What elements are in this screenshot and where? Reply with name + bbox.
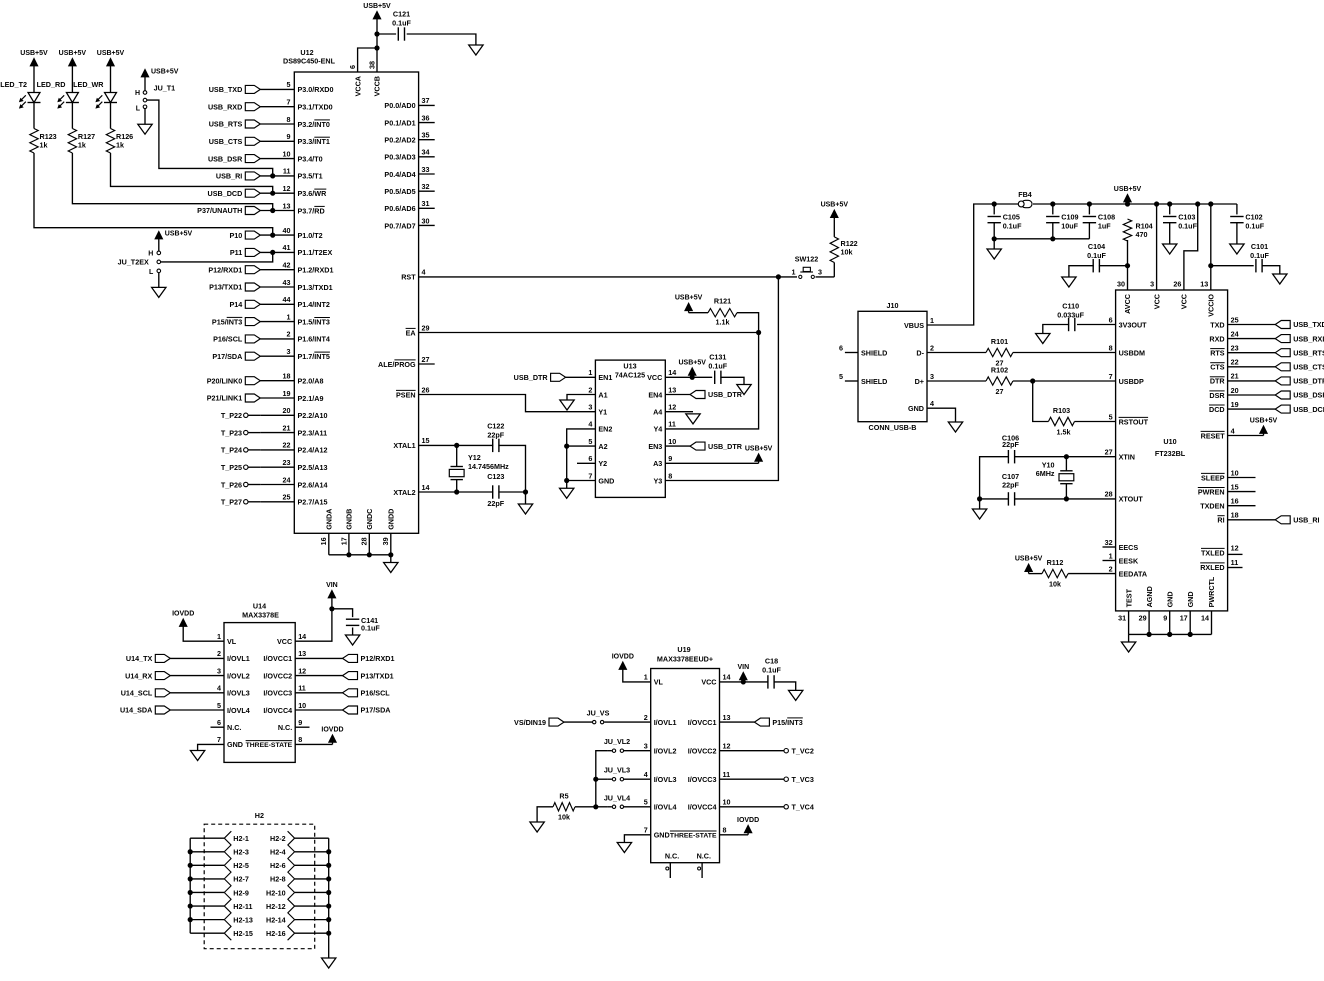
svg-text:1: 1 <box>287 312 291 321</box>
svg-text:USB_RTS: USB_RTS <box>209 120 243 129</box>
svg-text:RTS: RTS <box>1210 349 1225 358</box>
svg-text:AVCC: AVCC <box>1123 294 1132 314</box>
svg-text:USBDM: USBDM <box>1119 348 1145 357</box>
svg-text:22pF: 22pF <box>487 431 504 440</box>
svg-text:USB_RXD: USB_RXD <box>208 102 242 111</box>
svg-text:LED_WR: LED_WR <box>73 80 104 89</box>
svg-text:TXDEN: TXDEN <box>1200 502 1224 511</box>
svg-text:H2-9: H2-9 <box>233 888 249 897</box>
svg-text:P3.0/RXD0: P3.0/RXD0 <box>298 85 334 94</box>
svg-text:470: 470 <box>1136 230 1148 239</box>
svg-text:T_VC2: T_VC2 <box>792 747 814 756</box>
svg-text:VCC: VCC <box>647 373 662 382</box>
svg-text:XTAL1: XTAL1 <box>393 441 415 450</box>
svg-text:14: 14 <box>668 368 676 377</box>
svg-text:16: 16 <box>1231 497 1239 506</box>
svg-text:7: 7 <box>287 98 291 107</box>
svg-text:RXD: RXD <box>1209 334 1224 343</box>
svg-text:P21/LINK1: P21/LINK1 <box>207 394 243 403</box>
svg-text:H: H <box>148 251 153 258</box>
svg-text:P0.4/AD4: P0.4/AD4 <box>384 170 415 179</box>
svg-text:VL: VL <box>654 678 664 687</box>
svg-text:2: 2 <box>287 330 291 339</box>
svg-text:19: 19 <box>1231 400 1239 409</box>
svg-text:6: 6 <box>348 65 357 69</box>
svg-text:P2.2/A10: P2.2/A10 <box>298 411 328 420</box>
svg-text:VCC: VCC <box>277 637 292 646</box>
svg-text:P2.4/A12: P2.4/A12 <box>298 446 328 455</box>
svg-text:2: 2 <box>217 649 221 658</box>
svg-text:EESK: EESK <box>1119 556 1139 565</box>
svg-text:22pF: 22pF <box>1002 440 1019 449</box>
svg-text:Y4: Y4 <box>654 425 663 434</box>
svg-text:I/OVCC3: I/OVCC3 <box>263 689 292 698</box>
svg-text:16: 16 <box>319 537 328 545</box>
svg-text:3: 3 <box>287 347 291 356</box>
svg-text:9: 9 <box>287 132 291 141</box>
svg-text:P17/SDA: P17/SDA <box>361 706 391 715</box>
svg-text:22pF: 22pF <box>487 499 504 508</box>
svg-text:0.1uF: 0.1uF <box>1178 222 1197 231</box>
svg-text:USB_RI: USB_RI <box>216 172 242 181</box>
svg-text:P1.5/INT3: P1.5/INT3 <box>298 317 330 326</box>
svg-text:JU_VL2: JU_VL2 <box>604 737 630 746</box>
svg-text:EECS: EECS <box>1119 543 1139 552</box>
svg-text:USBDP: USBDP <box>1119 377 1144 386</box>
svg-text:P1.2/RXD1: P1.2/RXD1 <box>298 266 334 275</box>
svg-text:CTS: CTS <box>1210 363 1225 372</box>
svg-text:14: 14 <box>723 673 731 682</box>
svg-text:H2-13: H2-13 <box>233 915 253 924</box>
svg-text:0.1uF: 0.1uF <box>708 362 727 371</box>
svg-text:I/OVCC2: I/OVCC2 <box>688 747 717 756</box>
svg-text:GND: GND <box>908 404 924 413</box>
svg-text:XTIN: XTIN <box>1119 453 1135 462</box>
svg-text:C122: C122 <box>487 422 504 431</box>
svg-text:USB_CTS: USB_CTS <box>209 137 243 146</box>
svg-text:H2-7: H2-7 <box>233 875 249 884</box>
svg-text:10uF: 10uF <box>1061 222 1078 231</box>
svg-text:LED_T2: LED_T2 <box>0 80 27 89</box>
svg-text:4: 4 <box>588 420 592 429</box>
svg-text:37: 37 <box>422 96 430 105</box>
svg-text:34: 34 <box>422 148 430 157</box>
svg-text:10: 10 <box>298 701 306 710</box>
svg-text:8: 8 <box>668 471 672 480</box>
svg-text:6: 6 <box>839 343 843 352</box>
svg-text:35: 35 <box>422 131 430 140</box>
svg-text:DSR: DSR <box>1209 391 1225 400</box>
svg-text:12: 12 <box>668 403 676 412</box>
svg-text:H2-8: H2-8 <box>270 875 286 884</box>
svg-text:1.5k: 1.5k <box>1057 427 1071 436</box>
svg-text:12: 12 <box>723 742 731 751</box>
svg-text:H2-16: H2-16 <box>266 929 286 938</box>
svg-text:20: 20 <box>283 406 291 415</box>
svg-text:JU_T2EX: JU_T2EX <box>118 258 149 267</box>
svg-text:12: 12 <box>1231 543 1239 552</box>
svg-text:A2: A2 <box>598 442 607 451</box>
svg-text:H2-1: H2-1 <box>233 834 249 843</box>
svg-text:5: 5 <box>644 798 648 807</box>
svg-text:D+: D+ <box>915 377 924 386</box>
svg-text:1.1k: 1.1k <box>716 318 730 327</box>
svg-text:26: 26 <box>1173 280 1181 289</box>
svg-text:N.C.: N.C. <box>227 723 241 732</box>
svg-text:N.C.: N.C. <box>665 851 679 860</box>
svg-text:6: 6 <box>217 718 221 727</box>
svg-text:1: 1 <box>792 268 796 277</box>
svg-text:EN3: EN3 <box>648 442 662 451</box>
svg-text:42: 42 <box>283 261 291 270</box>
svg-text:13: 13 <box>1200 280 1208 289</box>
svg-text:11: 11 <box>298 684 306 693</box>
svg-text:R112: R112 <box>1047 558 1064 567</box>
svg-text:J10: J10 <box>887 301 899 310</box>
svg-text:P11: P11 <box>230 248 242 257</box>
svg-text:P2.6/A14: P2.6/A14 <box>298 480 328 489</box>
svg-text:7: 7 <box>644 826 648 835</box>
svg-text:P2.5/A13: P2.5/A13 <box>298 463 328 472</box>
svg-text:VL: VL <box>227 637 237 646</box>
svg-text:23: 23 <box>1231 344 1239 353</box>
svg-text:TEST: TEST <box>1124 588 1133 607</box>
svg-text:8: 8 <box>298 735 302 744</box>
svg-text:VIN: VIN <box>737 664 749 671</box>
svg-text:9: 9 <box>298 718 302 727</box>
svg-text:JU_VL4: JU_VL4 <box>604 793 630 802</box>
svg-text:H2-4: H2-4 <box>270 848 286 857</box>
svg-text:I/OVL3: I/OVL3 <box>654 775 677 784</box>
svg-text:H2-12: H2-12 <box>266 902 286 911</box>
svg-text:22: 22 <box>283 441 291 450</box>
svg-text:29: 29 <box>1139 613 1147 622</box>
svg-text:RXLED: RXLED <box>1200 563 1224 572</box>
svg-text:AGND: AGND <box>1145 586 1154 607</box>
svg-text:15: 15 <box>1231 482 1239 491</box>
svg-text:VCCA: VCCA <box>353 76 362 96</box>
svg-text:41: 41 <box>283 243 291 252</box>
svg-text:A3: A3 <box>653 459 662 468</box>
svg-text:VS/DIN19: VS/DIN19 <box>514 718 546 727</box>
svg-text:I/OVCC1: I/OVCC1 <box>688 718 717 727</box>
svg-text:USB+5V: USB+5V <box>1250 418 1278 425</box>
svg-text:H2-15: H2-15 <box>233 929 253 938</box>
svg-text:U14_TX: U14_TX <box>126 654 153 663</box>
svg-text:32: 32 <box>422 182 430 191</box>
svg-text:P0.0/AD0: P0.0/AD0 <box>384 101 415 110</box>
svg-text:U19: U19 <box>677 645 690 654</box>
svg-text:25: 25 <box>283 493 291 502</box>
svg-text:USB+5V: USB+5V <box>1114 186 1142 193</box>
svg-text:R103: R103 <box>1053 406 1070 415</box>
svg-text:I/OVCC2: I/OVCC2 <box>263 671 292 680</box>
svg-text:P16/SCL: P16/SCL <box>361 689 391 698</box>
svg-text:11: 11 <box>1231 558 1239 567</box>
svg-text:GND: GND <box>1186 591 1195 607</box>
svg-text:I/OVCC4: I/OVCC4 <box>263 706 292 715</box>
svg-text:GNDC: GNDC <box>365 509 374 530</box>
svg-text:C18: C18 <box>765 657 778 666</box>
svg-text:JU_VS: JU_VS <box>587 709 610 718</box>
svg-text:ALE/PROG: ALE/PROG <box>378 360 416 369</box>
svg-text:P0.1/AD1: P0.1/AD1 <box>384 118 415 127</box>
svg-text:EA: EA <box>406 328 416 337</box>
svg-text:USB_DSR: USB_DSR <box>1293 391 1324 400</box>
svg-text:31: 31 <box>1118 613 1126 622</box>
svg-text:GND: GND <box>227 740 243 749</box>
svg-text:GNDB: GNDB <box>345 509 354 530</box>
svg-text:P1.0/T2: P1.0/T2 <box>298 231 323 240</box>
svg-text:IOVDD: IOVDD <box>737 817 759 824</box>
svg-text:Y3: Y3 <box>654 476 663 485</box>
svg-text:4: 4 <box>422 268 426 277</box>
svg-text:H2-11: H2-11 <box>233 902 252 911</box>
svg-text:36: 36 <box>422 113 430 122</box>
svg-text:VCC: VCC <box>1180 294 1189 309</box>
svg-text:C109: C109 <box>1061 212 1078 221</box>
svg-text:R122: R122 <box>841 239 858 248</box>
svg-text:H2-5: H2-5 <box>233 861 249 870</box>
svg-text:P10: P10 <box>230 231 243 240</box>
svg-text:6MHz: 6MHz <box>1036 469 1055 478</box>
svg-text:4: 4 <box>1231 426 1235 435</box>
svg-text:U13: U13 <box>623 361 636 370</box>
svg-text:Y12: Y12 <box>468 453 481 462</box>
svg-text:3: 3 <box>217 666 221 675</box>
svg-text:P3.4/T0: P3.4/T0 <box>298 154 323 163</box>
svg-text:H2-6: H2-6 <box>270 861 286 870</box>
svg-text:1: 1 <box>644 673 648 682</box>
svg-text:0.1uF: 0.1uF <box>1245 222 1264 231</box>
svg-text:8: 8 <box>723 826 727 835</box>
svg-text:P3.2/INT0: P3.2/INT0 <box>298 120 330 129</box>
svg-text:43: 43 <box>283 278 291 287</box>
svg-text:2: 2 <box>588 385 592 394</box>
svg-text:P2.3/A11: P2.3/A11 <box>298 428 328 437</box>
svg-text:44: 44 <box>283 295 291 304</box>
svg-text:C105: C105 <box>1003 212 1020 221</box>
svg-text:32: 32 <box>1105 538 1113 547</box>
svg-text:3: 3 <box>930 372 934 381</box>
svg-text:15: 15 <box>422 436 430 445</box>
svg-text:28: 28 <box>360 537 369 545</box>
svg-text:USB_DTR: USB_DTR <box>708 390 743 399</box>
svg-text:0.1uF: 0.1uF <box>392 19 411 28</box>
svg-text:10k: 10k <box>1049 579 1061 588</box>
svg-text:2: 2 <box>644 713 648 722</box>
svg-text:T_VC4: T_VC4 <box>792 803 814 812</box>
svg-text:17: 17 <box>1180 613 1188 622</box>
svg-text:C131: C131 <box>709 353 726 362</box>
svg-text:74AC125: 74AC125 <box>615 371 645 380</box>
svg-text:21: 21 <box>1231 372 1239 381</box>
svg-text:Y2: Y2 <box>598 459 607 468</box>
svg-text:Y1: Y1 <box>598 408 607 417</box>
svg-text:SHIELD: SHIELD <box>861 348 887 357</box>
svg-text:USB+5V: USB+5V <box>821 202 849 209</box>
svg-text:C104: C104 <box>1088 242 1105 251</box>
svg-text:D-: D- <box>916 348 924 357</box>
svg-text:24: 24 <box>1231 329 1239 338</box>
svg-text:5: 5 <box>1109 412 1113 421</box>
svg-text:GND: GND <box>654 831 670 840</box>
svg-text:2: 2 <box>930 343 934 352</box>
svg-text:T_P24: T_P24 <box>221 446 242 455</box>
svg-text:GNDD: GNDD <box>387 509 396 530</box>
svg-text:VBUS: VBUS <box>904 321 924 330</box>
svg-text:THREE-STATE: THREE-STATE <box>670 833 717 840</box>
svg-text:SLEEP: SLEEP <box>1201 473 1225 482</box>
svg-text:USB_DCD: USB_DCD <box>208 189 243 198</box>
svg-text:C123: C123 <box>487 472 504 481</box>
svg-text:7: 7 <box>588 471 592 480</box>
svg-text:28: 28 <box>1105 490 1113 499</box>
svg-text:U10: U10 <box>1163 437 1176 446</box>
svg-text:N.C.: N.C. <box>278 723 292 732</box>
svg-text:31: 31 <box>422 199 430 208</box>
svg-text:EEDATA: EEDATA <box>1119 569 1147 578</box>
svg-text:P1.6/INT4: P1.6/INT4 <box>298 335 330 344</box>
svg-text:20: 20 <box>1231 386 1239 395</box>
svg-text:5: 5 <box>588 437 592 446</box>
svg-text:R101: R101 <box>991 337 1008 346</box>
svg-text:FT232BL: FT232BL <box>1155 449 1186 458</box>
svg-text:GND: GND <box>598 476 614 485</box>
svg-text:VIN: VIN <box>326 582 338 589</box>
svg-text:XTAL2: XTAL2 <box>393 488 415 497</box>
svg-text:12: 12 <box>283 184 291 193</box>
svg-text:IOVDD: IOVDD <box>321 726 343 733</box>
svg-text:USB+5V: USB+5V <box>675 295 703 302</box>
svg-text:P37/UNAUTH: P37/UNAUTH <box>197 206 242 215</box>
svg-text:USB+5V: USB+5V <box>20 50 48 57</box>
svg-text:P1.1/T2EX: P1.1/T2EX <box>298 248 333 257</box>
svg-text:P1.3/TXD1: P1.3/TXD1 <box>298 283 333 292</box>
svg-text:8: 8 <box>287 115 291 124</box>
svg-text:T_P25: T_P25 <box>221 463 242 472</box>
svg-text:A4: A4 <box>653 408 662 417</box>
svg-text:USB_TXD: USB_TXD <box>209 85 243 94</box>
svg-text:8: 8 <box>1109 343 1113 352</box>
svg-text:USB+5V: USB+5V <box>745 445 773 452</box>
svg-text:1: 1 <box>588 368 592 377</box>
svg-text:14: 14 <box>1201 613 1209 622</box>
svg-text:EN1: EN1 <box>598 373 612 382</box>
svg-text:9: 9 <box>668 454 672 463</box>
svg-text:P16/SCL: P16/SCL <box>213 335 243 344</box>
svg-text:L: L <box>149 269 154 276</box>
svg-text:EN4: EN4 <box>648 390 662 399</box>
svg-text:MAX3378E: MAX3378E <box>242 611 279 620</box>
svg-text:T_P23: T_P23 <box>221 428 242 437</box>
svg-text:RESET: RESET <box>1201 431 1226 440</box>
svg-text:P1.4/INT2: P1.4/INT2 <box>298 300 330 309</box>
svg-text:VCCIO: VCCIO <box>1207 294 1216 317</box>
svg-text:XTOUT: XTOUT <box>1119 495 1144 504</box>
svg-text:25: 25 <box>1231 315 1239 324</box>
svg-text:12: 12 <box>298 666 306 675</box>
svg-text:13: 13 <box>668 385 676 394</box>
svg-text:USB+5V: USB+5V <box>151 69 179 76</box>
svg-text:26: 26 <box>422 385 430 394</box>
svg-text:P0.7/AD7: P0.7/AD7 <box>384 221 415 230</box>
svg-text:22pF: 22pF <box>1002 481 1019 490</box>
svg-text:USB+5V: USB+5V <box>1015 556 1043 563</box>
svg-text:2: 2 <box>1109 564 1113 573</box>
svg-text:11: 11 <box>283 167 291 176</box>
svg-text:13: 13 <box>723 713 731 722</box>
svg-text:USB_RTS: USB_RTS <box>1293 348 1324 357</box>
svg-text:T_P22: T_P22 <box>221 411 242 420</box>
svg-text:3: 3 <box>644 742 648 751</box>
svg-text:27: 27 <box>422 355 430 364</box>
svg-text:0.1uF: 0.1uF <box>361 623 380 632</box>
svg-text:I/OVCC3: I/OVCC3 <box>688 775 717 784</box>
svg-text:4: 4 <box>644 770 648 779</box>
svg-text:H2-2: H2-2 <box>270 834 286 843</box>
svg-text:10: 10 <box>723 798 731 807</box>
svg-text:T_P26: T_P26 <box>221 480 242 489</box>
svg-text:U14_SDA: U14_SDA <box>120 706 152 715</box>
svg-text:38: 38 <box>367 61 376 69</box>
svg-text:C103: C103 <box>1178 212 1195 221</box>
svg-text:0.1uF: 0.1uF <box>1087 251 1106 260</box>
svg-text:GNDA: GNDA <box>325 509 334 530</box>
svg-text:P0.5/AD5: P0.5/AD5 <box>384 187 415 196</box>
svg-text:5: 5 <box>217 701 221 710</box>
svg-text:IOVDD: IOVDD <box>612 654 634 661</box>
svg-text:IOVDD: IOVDD <box>172 611 194 618</box>
svg-text:PWRCTL: PWRCTL <box>1207 576 1216 607</box>
svg-text:P3.3/INT1: P3.3/INT1 <box>298 137 330 146</box>
svg-text:19: 19 <box>283 389 291 398</box>
svg-text:U14_RX: U14_RX <box>125 671 152 680</box>
svg-text:USB+5V: USB+5V <box>165 231 193 238</box>
svg-text:P12/RXD1: P12/RXD1 <box>361 654 395 663</box>
svg-text:P0.2/AD2: P0.2/AD2 <box>384 136 415 145</box>
svg-text:P2.0/A8: P2.0/A8 <box>298 377 324 386</box>
svg-text:VCC: VCC <box>701 678 716 687</box>
svg-text:H2-10: H2-10 <box>266 888 286 897</box>
svg-text:P0.3/AD3: P0.3/AD3 <box>384 153 415 162</box>
svg-text:P2.1/A9: P2.1/A9 <box>298 394 324 403</box>
svg-text:EN2: EN2 <box>598 425 612 434</box>
svg-text:C121: C121 <box>393 10 410 19</box>
svg-text:H2-3: H2-3 <box>233 848 249 857</box>
svg-text:I/OVL2: I/OVL2 <box>654 747 677 756</box>
svg-text:1k: 1k <box>78 141 86 150</box>
svg-text:USB_DTR: USB_DTR <box>708 442 743 451</box>
svg-text:I/OVL3: I/OVL3 <box>227 689 250 698</box>
svg-text:21: 21 <box>283 423 291 432</box>
svg-text:1uF: 1uF <box>1098 222 1111 231</box>
svg-text:USB_DTR: USB_DTR <box>1293 377 1324 386</box>
svg-text:10k: 10k <box>841 248 853 257</box>
svg-text:3V3OUT: 3V3OUT <box>1119 320 1148 329</box>
svg-text:0.1uF: 0.1uF <box>762 666 781 675</box>
svg-text:27: 27 <box>1105 448 1113 457</box>
svg-text:R5: R5 <box>559 792 568 801</box>
svg-text:P2.7/A15: P2.7/A15 <box>298 498 328 507</box>
svg-text:I/OVCC1: I/OVCC1 <box>263 654 292 663</box>
svg-text:P3.5/T1: P3.5/T1 <box>298 172 323 181</box>
svg-text:USB+5V: USB+5V <box>363 3 391 10</box>
svg-text:USB_DSR: USB_DSR <box>208 154 243 163</box>
svg-text:SW122: SW122 <box>795 255 819 264</box>
svg-text:I/OVL1: I/OVL1 <box>654 718 677 727</box>
svg-text:4: 4 <box>930 399 934 408</box>
